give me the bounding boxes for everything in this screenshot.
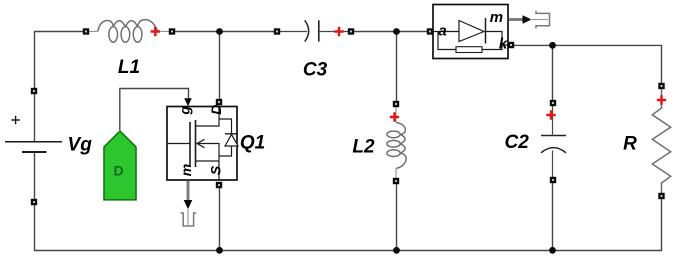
svg-text:D: D (114, 163, 124, 179)
wire C2 bottom to rail (552, 180, 554, 250)
L1 left port square (83, 28, 89, 34)
wire diode cathode to load (511, 44, 662, 46)
ground reference cup below Q1 (181, 213, 197, 226)
MOSFET gate bar (189, 122, 191, 165)
svg-text:Vg: Vg (68, 134, 93, 155)
diode m arrowhead (523, 15, 532, 24)
diode a port square (427, 28, 433, 34)
svg-text:a: a (438, 23, 446, 40)
inductor L1 coil (98, 20, 158, 43)
wire node C to C2 top (552, 45, 554, 103)
ground reference cup right of diode (536, 11, 550, 29)
wire L1 to C3 (172, 31, 277, 33)
C2 bottom port square (550, 177, 556, 183)
MOSFET channel bar (195, 120, 197, 167)
diode triangle (459, 21, 484, 42)
svg-text:L1: L1 (118, 57, 140, 78)
capacitor C3 curved plate (305, 20, 309, 41)
junction node cathode/C2 (549, 42, 556, 49)
wire node A to Q1 drain (219, 32, 221, 103)
svg-text:Q1: Q1 (240, 133, 265, 154)
DC source Vg positive plate (5, 141, 62, 143)
signal wire from D to gate (120, 89, 189, 131)
svg-text:m: m (178, 164, 194, 176)
diode m tail line (530, 19, 548, 21)
C2 top port square (550, 100, 556, 106)
R bottom port square (658, 193, 664, 199)
inductor L1 leads (89, 30, 98, 32)
svg-text:k: k (499, 35, 508, 52)
wire right vertical load branch upper (661, 45, 663, 89)
C3 right port square (348, 28, 354, 34)
positive mark R (657, 95, 666, 104)
junction node C3/L2/diode anode (393, 28, 400, 35)
svg-text:C2: C2 (505, 132, 530, 153)
svg-text:m: m (490, 9, 503, 26)
Q1 m tail line (187, 208, 189, 225)
svg-text:L2: L2 (352, 137, 375, 158)
wire bottom return rail (34, 250, 662, 252)
diode anode lead (433, 31, 459, 33)
diode cathode route to k port (486, 32, 509, 46)
diode m port thick arrow (509, 18, 524, 21)
diode k port square (508, 42, 514, 48)
wire top left from source corner to L1 (34, 31, 86, 33)
positive mark L2 (390, 112, 399, 121)
Q1 m port thick arrow (187, 181, 190, 201)
junction node L2/bottom rail (393, 247, 400, 254)
capacitor C2 curved plate (541, 148, 566, 153)
MOSFET body arrow (197, 139, 205, 147)
wire left vertical source branch upper (34, 32, 36, 142)
svg-text:S: S (207, 165, 223, 175)
junction node C2/bottom rail (549, 247, 556, 254)
positive mark L1 (151, 27, 160, 36)
MOSFET body diode branch upper (219, 119, 232, 134)
svg-text:C3: C3 (303, 60, 328, 81)
svg-text:g: g (177, 106, 193, 116)
DC source Vg plus sign (11, 116, 20, 125)
L1 right port square (169, 28, 175, 34)
positive mark C3 (334, 27, 343, 36)
junction node L1/C3/Q1 drain (216, 28, 223, 35)
svg-text:D: D (208, 105, 224, 115)
capacitor C3 leads (280, 31, 307, 33)
MOSFET drain stub (196, 107, 220, 127)
DC source Vg negative plate (22, 151, 47, 153)
diode snubber resistor box (456, 47, 482, 53)
MOSFET gate lead (168, 143, 190, 145)
Vg top port square (31, 88, 37, 94)
duty-cycle source block D (104, 131, 136, 200)
wire Q1 source to bottom rail (219, 185, 221, 251)
wire node B to L2 top (396, 32, 398, 105)
capacitor C2 leads (552, 106, 554, 136)
diode cathode bar (485, 18, 487, 44)
R top port square (658, 83, 664, 89)
inductor L2 leads (395, 107, 397, 123)
capacitor C2 straight plate (541, 135, 566, 137)
svg-text:R: R (623, 134, 637, 155)
MOSFET body diode branch lower (219, 146, 232, 156)
diode block body (433, 5, 508, 59)
Q1 D port square (216, 99, 222, 105)
L2 top port square (393, 101, 399, 107)
L2 bottom port square (393, 178, 399, 184)
MOSFET source stub (196, 160, 220, 162)
inductor L2 coil (387, 123, 406, 169)
diode snubber branch (438, 32, 502, 50)
signal arrowhead into gate (184, 98, 192, 106)
positive mark C2 (546, 110, 555, 119)
Vg bottom port square (31, 199, 37, 205)
wire right vertical load branch lower (661, 193, 663, 251)
wire L2 bottom to rail (396, 181, 398, 251)
MOSFET body diode triangle (225, 134, 238, 146)
wire left vertical source branch lower (34, 153, 36, 251)
MOSFET body stub (197, 144, 220, 181)
resistor R zigzag (652, 89, 670, 196)
junction node source/bottom rail (216, 247, 223, 254)
Q1 S port square (216, 182, 222, 188)
MOSFET block Q1 body (167, 107, 237, 181)
MOSFET body diode cathode bar (225, 133, 238, 135)
capacitor C3 straight plate (318, 20, 320, 41)
C3 left port square (274, 28, 280, 34)
Q1 m arrowhead (184, 200, 193, 209)
wire C3 to diode anode (351, 31, 430, 33)
